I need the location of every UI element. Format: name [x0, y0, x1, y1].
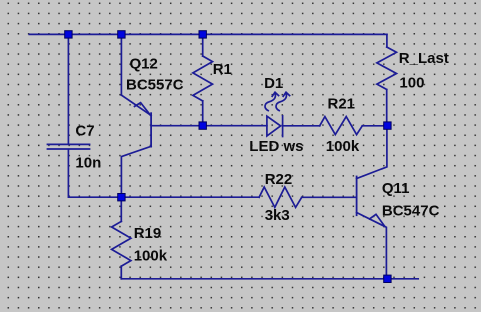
svg-text:C7: C7 — [75, 123, 94, 140]
svg-text:3k3: 3k3 — [265, 207, 290, 224]
svg-text:100k: 100k — [134, 248, 168, 265]
svg-text:Q12: Q12 — [130, 56, 158, 73]
svg-text:R22: R22 — [265, 171, 293, 188]
svg-text:R19: R19 — [134, 225, 162, 242]
svg-text:D1: D1 — [264, 75, 283, 92]
svg-text:Q11: Q11 — [382, 180, 410, 197]
svg-text:BC557C: BC557C — [126, 77, 184, 94]
svg-text:R21: R21 — [328, 96, 356, 113]
svg-text:R_Last: R_Last — [399, 50, 449, 67]
svg-text:10n: 10n — [75, 155, 101, 172]
svg-text:BC547C: BC547C — [382, 202, 440, 219]
svg-text:LED ws: LED ws — [249, 138, 303, 155]
svg-text:R1: R1 — [213, 61, 232, 78]
svg-text:100k: 100k — [326, 138, 360, 155]
svg-text:100: 100 — [399, 74, 424, 91]
